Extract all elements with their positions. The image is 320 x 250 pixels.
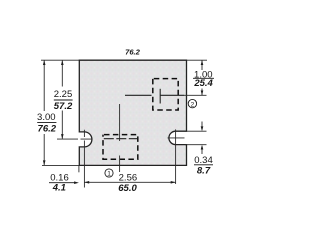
callout circle 1 <box>105 169 113 177</box>
mounting slot right centerline vertical <box>175 129 177 165</box>
svg-text:76.2: 76.2 <box>125 48 141 57</box>
terminal 2 centerline horizontal / extension for 1.00 dim <box>125 94 184 96</box>
svg-text:2.56: 2.56 <box>119 172 138 183</box>
extension line top right <box>187 59 207 61</box>
terminal 1 centerline horizontal <box>104 138 137 140</box>
terminal 1 centerline vertical <box>119 104 121 172</box>
extension slot centers down to 2.56 line <box>83 165 85 187</box>
svg-text:1: 1 <box>107 171 111 178</box>
terminal 1 hidden outline (dashed rect, bottom center) <box>103 135 138 160</box>
svg-text:2: 2 <box>191 101 195 108</box>
svg-text:2.25: 2.25 <box>54 89 73 100</box>
relay body (3.00 x 3.00 in square, gray fill) <box>79 60 186 165</box>
callout circle 2 <box>188 99 196 107</box>
svg-text:57.2: 57.2 <box>54 101 73 112</box>
extension line slot right bottom <box>185 144 207 146</box>
extension line bottom left <box>42 164 79 166</box>
dimension 1.00/25.4 vertical line <box>201 60 203 95</box>
dimension 2.56/65.0 horizontal line <box>84 181 175 183</box>
svg-text:65.0: 65.0 <box>118 183 137 194</box>
terminal 2 hidden outline (dashed rect, right middle) <box>153 79 178 110</box>
svg-text:25.4: 25.4 <box>193 78 213 89</box>
extension line slot right top <box>185 130 207 132</box>
svg-text:8.7: 8.7 <box>197 166 211 177</box>
svg-text:3.00: 3.00 <box>37 112 56 123</box>
extension line top left <box>41 59 79 61</box>
extension line body left edge down <box>78 165 80 172</box>
mounting slot left centerline vertical <box>83 130 85 166</box>
dimension 0.34/8.7 arrows (outside) <box>201 122 203 129</box>
svg-text:76.2: 76.2 <box>38 124 57 135</box>
mounting slot left centerline horizontal <box>57 138 92 140</box>
svg-text:4.1: 4.1 <box>52 183 66 194</box>
mounting slot right centerline horizontal <box>168 137 185 139</box>
dimension 3.00/76.2 vertical line <box>43 60 45 165</box>
dimension 2.25/57.2 vertical line <box>61 60 63 139</box>
svg-text:0.34: 0.34 <box>194 155 213 166</box>
terminal 2 centerline vertical tick <box>159 89 161 104</box>
